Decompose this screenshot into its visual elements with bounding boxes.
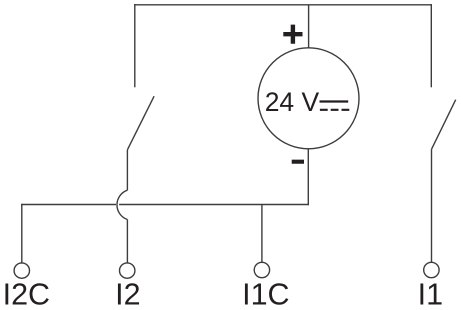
svg-text:I2C: I2C — [3, 278, 50, 310]
wire W11: bus drop to terminal I1C — [261, 205, 263, 263]
DC symbol solid bar — [320, 100, 349, 102]
svg-text:I2: I2 — [115, 278, 140, 310]
svg-text:I1C: I1C — [242, 278, 289, 310]
wire W5: source negative drop to bottom bus — [307, 149, 309, 205]
wire hop: I2 wire jumps over bottom bus (no connection) — [117, 190, 127, 219]
wire W8: bus drop to terminal I2C — [21, 205, 23, 263]
svg-text:24 V: 24 V — [265, 87, 320, 117]
terminal circle I2 — [120, 263, 135, 278]
wire W4: rail to source positive terminal — [308, 5, 310, 48]
terminal circle I1 — [424, 262, 439, 277]
switch S2 blade — [127, 96, 154, 150]
plus sign of source — [283, 25, 302, 44]
wire W3: right rail drop to switch S1 fixed contact — [430, 5, 432, 87]
terminal circle I2C — [14, 263, 29, 278]
wire W2: left rail drop to switch S2 fixed contact — [134, 5, 136, 87]
wire W7: bottom bus right segment (hop to source drop) — [120, 204, 308, 206]
wire W9: switch S2 to hop — [126, 150, 128, 190]
wire W10: hop to terminal I2 — [126, 220, 128, 263]
switch S1 blade — [432, 100, 456, 149]
DC symbol dashed bar — [320, 109, 349, 111]
svg-text:I1: I1 — [418, 278, 443, 310]
terminal circle I1C — [254, 262, 269, 277]
wire W12: switch S1 to terminal I1 — [431, 149, 433, 262]
minus sign of source — [292, 160, 304, 164]
wire W6: bottom bus left segment (I2C corner to hop) — [22, 204, 116, 206]
voltage source V1 circle — [258, 48, 359, 149]
wire W1: top supply rail — [135, 4, 432, 6]
